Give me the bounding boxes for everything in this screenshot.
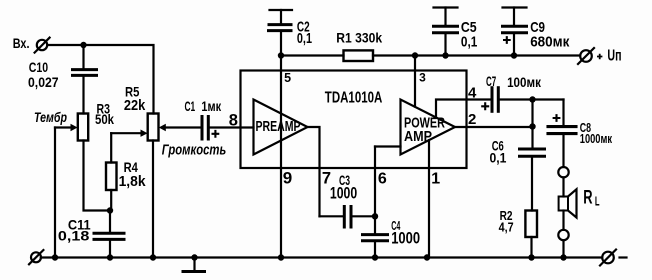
svg-text:100мк: 100мк xyxy=(507,74,542,90)
svg-text:С10: С10 xyxy=(29,59,48,75)
svg-text:1000: 1000 xyxy=(330,184,357,202)
svg-text:0,1: 0,1 xyxy=(461,33,477,50)
svg-text:0,1: 0,1 xyxy=(297,30,312,47)
svg-text:0,1: 0,1 xyxy=(490,150,507,166)
svg-text:PREAMP: PREAMP xyxy=(256,118,301,135)
svg-text:6: 6 xyxy=(378,171,387,188)
svg-text:3: 3 xyxy=(419,71,426,85)
svg-text:1000мк: 1000мк xyxy=(580,131,613,146)
svg-text:1000: 1000 xyxy=(391,230,420,248)
svg-text:С7: С7 xyxy=(486,73,496,89)
svg-text:1,8k: 1,8k xyxy=(119,173,147,190)
svg-text:1: 1 xyxy=(431,171,440,188)
svg-text:4: 4 xyxy=(468,84,477,101)
svg-text:Вх.: Вх. xyxy=(13,35,30,51)
svg-text:С1: С1 xyxy=(185,98,196,114)
svg-text:TDA1010A: TDA1010A xyxy=(325,90,383,107)
svg-text:9: 9 xyxy=(283,169,292,188)
svg-text:AMP: AMP xyxy=(404,128,432,145)
svg-text:5: 5 xyxy=(284,71,291,85)
svg-text:7: 7 xyxy=(322,170,331,188)
svg-text:22k: 22k xyxy=(124,97,146,114)
svg-text:8: 8 xyxy=(229,111,238,129)
svg-text:1мк: 1мк xyxy=(201,98,221,114)
svg-text:Тембр: Тембр xyxy=(34,109,67,125)
svg-text:L: L xyxy=(595,194,600,209)
svg-text:4,7: 4,7 xyxy=(499,221,514,235)
svg-text:R1 330k: R1 330k xyxy=(336,31,382,46)
svg-text:R: R xyxy=(583,187,592,208)
svg-text:680мк: 680мк xyxy=(530,33,570,50)
svg-text:0,18: 0,18 xyxy=(58,228,90,244)
svg-text:Громкость: Громкость xyxy=(162,142,227,159)
svg-text:0,027: 0,027 xyxy=(28,74,59,90)
svg-text:2: 2 xyxy=(468,111,476,128)
svg-text:Uп: Uп xyxy=(607,47,621,64)
svg-text:50k: 50k xyxy=(95,111,114,127)
